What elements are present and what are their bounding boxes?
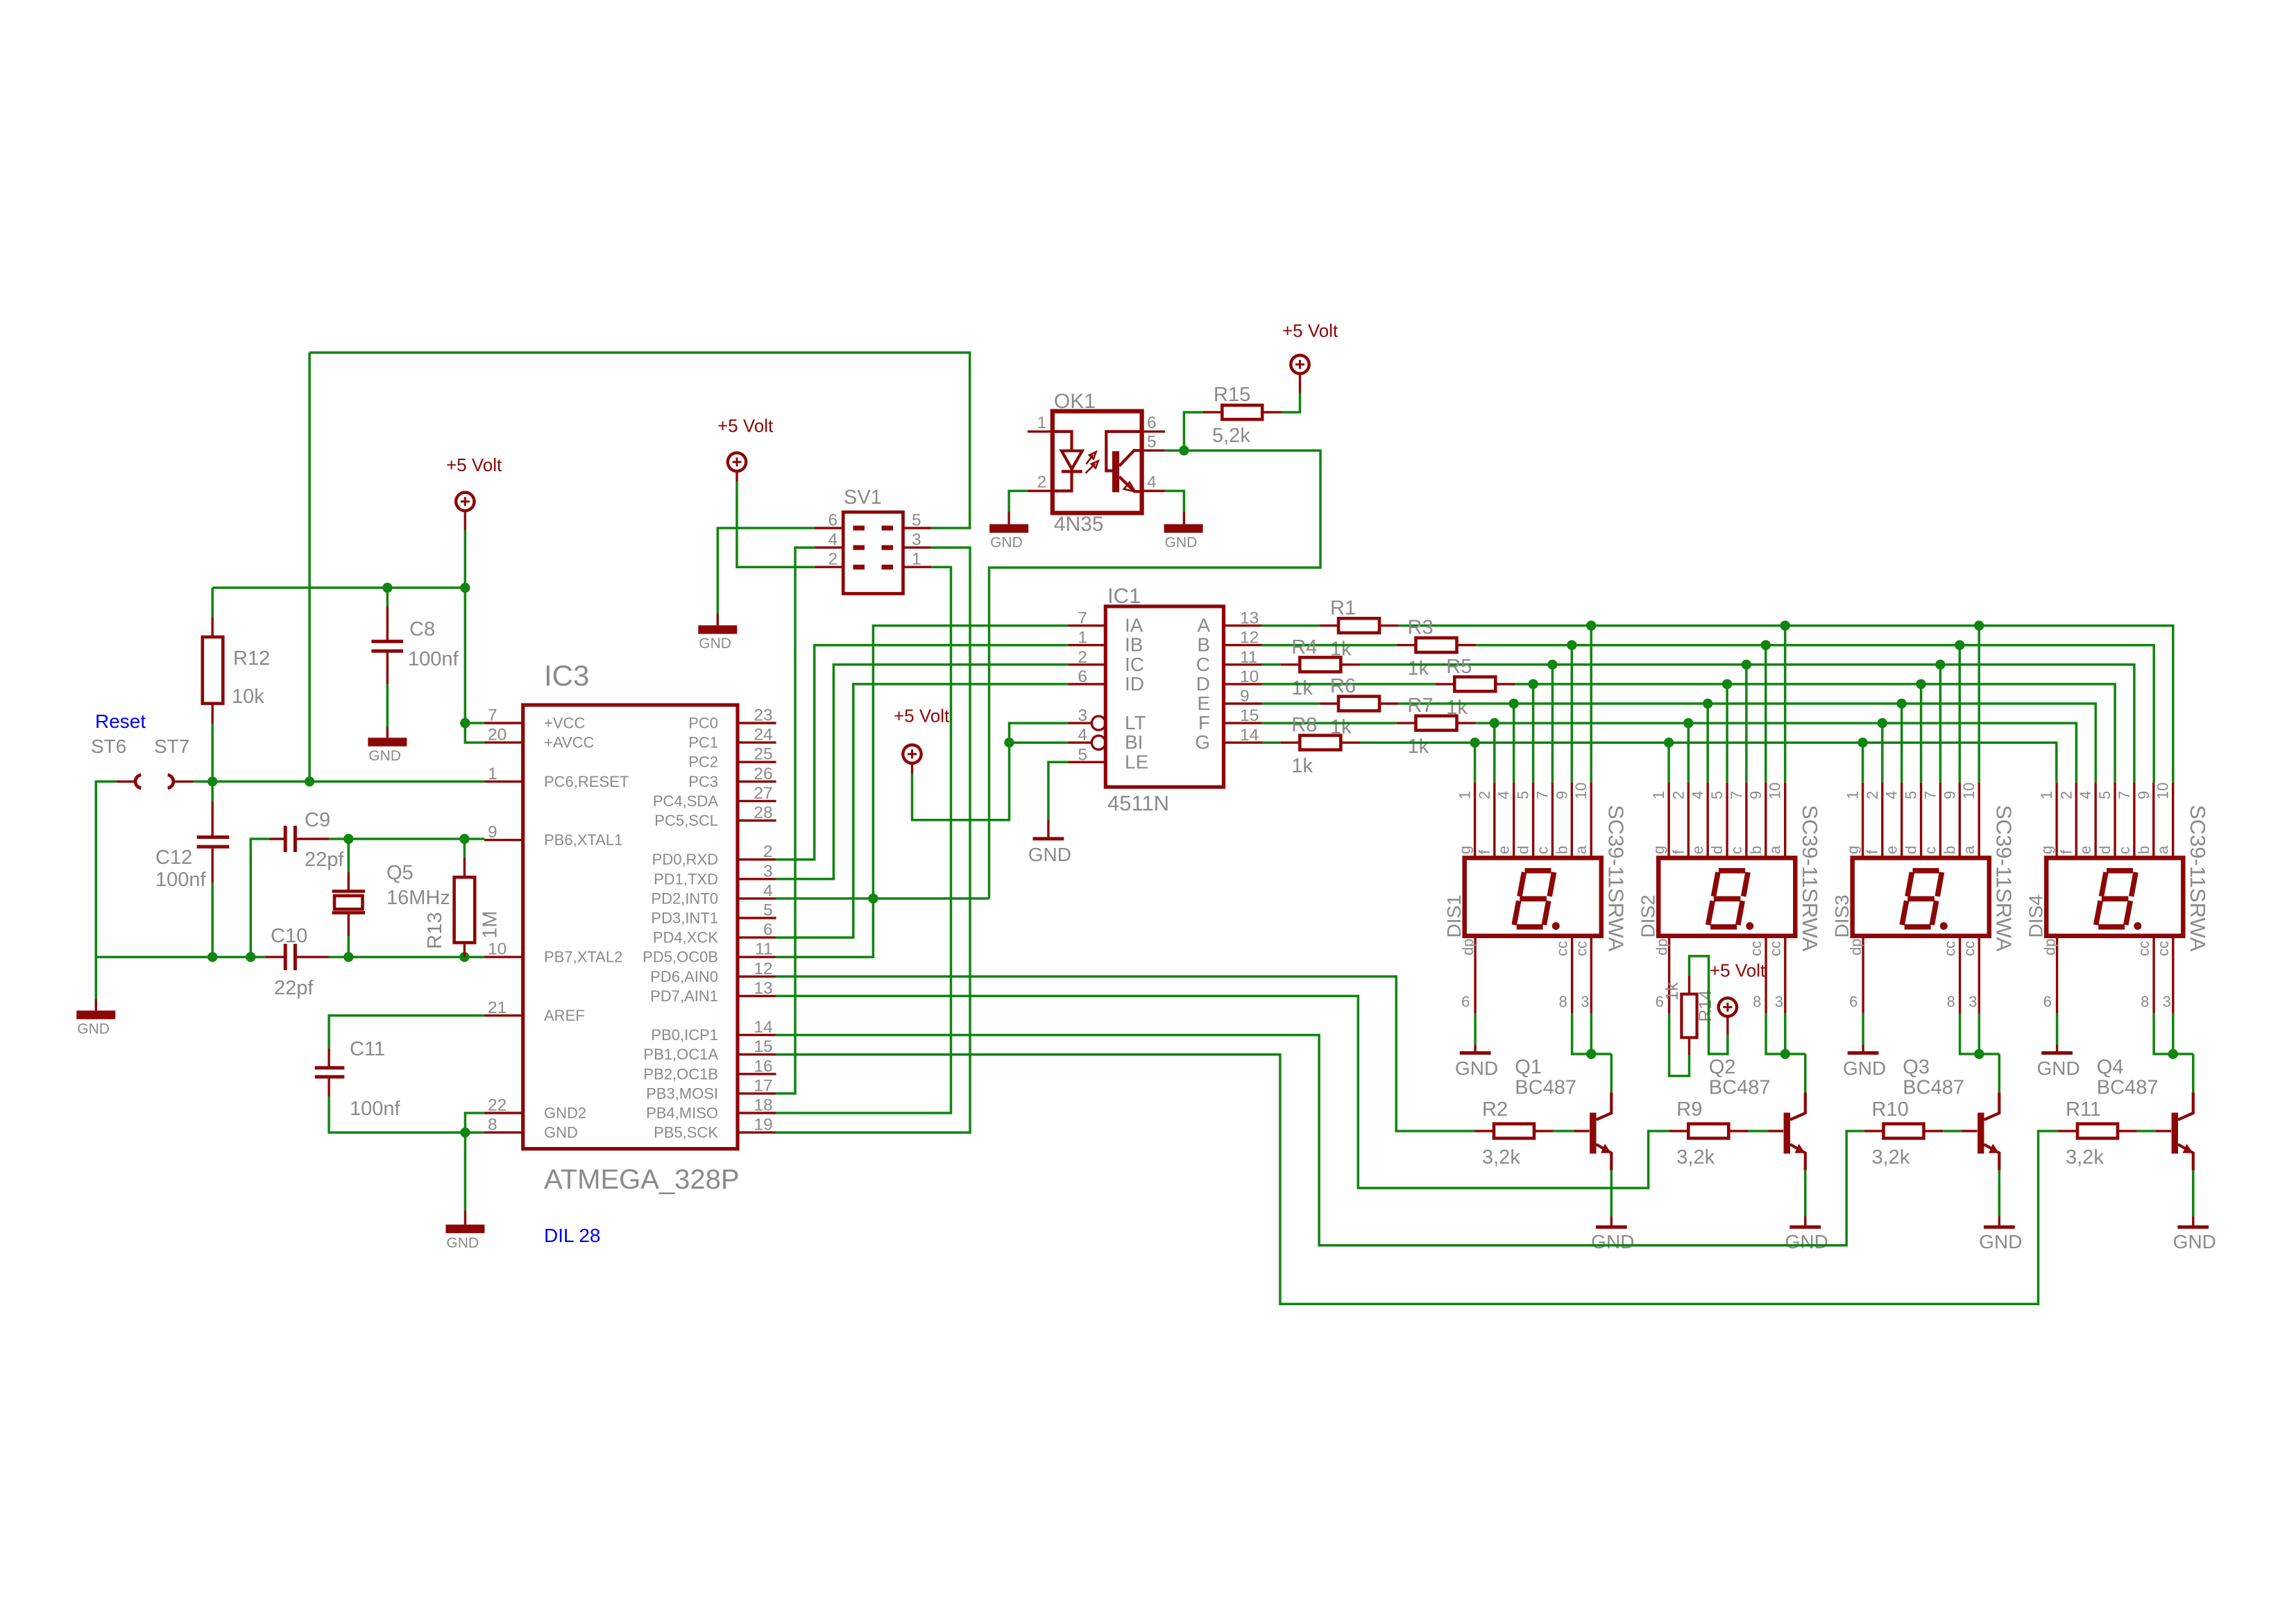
OK1 internal LED — [1053, 432, 1072, 451]
svg-text:cc: cc — [1747, 941, 1764, 956]
svg-text:3: 3 — [1775, 993, 1783, 1010]
svg-text:GND: GND — [699, 636, 731, 652]
junction segment net — [1722, 679, 1732, 689]
IC3 pin 5 PD3,INT1 — [738, 917, 776, 919]
svg-text:19: 19 — [754, 1116, 772, 1135]
svg-text:4N35: 4N35 — [1054, 513, 1104, 536]
svg-text:13: 13 — [754, 979, 772, 998]
junction segment net — [1567, 640, 1576, 650]
ground GND (DIS4 dp) — [2056, 1044, 2058, 1053]
svg-text:R4: R4 — [1291, 636, 1317, 658]
svg-text:PC1: PC1 — [688, 734, 718, 751]
svg-text:GND: GND — [2173, 1231, 2216, 1252]
svg-text:ID: ID — [1125, 673, 1144, 695]
IC3 pin 21 AREF — [484, 1014, 523, 1017]
display DIS3 digit 8 — [1902, 871, 1941, 927]
svg-text:f: f — [2057, 849, 2075, 854]
wire top-run drop to reset row — [308, 352, 311, 781]
svg-text:SC39-11SRWA: SC39-11SRWA — [1604, 805, 1629, 952]
wire segment drop — [1571, 645, 1574, 783]
svg-text:b: b — [2135, 846, 2152, 854]
junction rail/reset-gnd — [95, 956, 96, 958]
wire segment drop — [1862, 742, 1864, 783]
svg-text:d: d — [1708, 846, 1726, 854]
wire crystal top — [348, 839, 350, 872]
IC1 pin 2 IC — [1068, 663, 1105, 665]
svg-text:GND: GND — [1843, 1057, 1886, 1079]
junction rail/+5V/IC3 supply — [460, 583, 470, 593]
svg-text:3: 3 — [1581, 993, 1589, 1010]
junction segment net — [1703, 699, 1712, 708]
svg-text:3,2k: 3,2k — [1676, 1146, 1715, 1169]
wire IC3 pin12 to R2 (digit 1 select) — [776, 976, 1475, 1131]
svg-text:11: 11 — [1240, 648, 1257, 667]
IC3 pin 24 PC1 — [738, 741, 776, 743]
svg-text:5: 5 — [1515, 791, 1532, 799]
svg-text:2: 2 — [2057, 791, 2075, 799]
OK1 pin 1 — [1028, 430, 1053, 432]
junction segment net — [1470, 738, 1479, 747]
svg-text:3,2k: 3,2k — [1872, 1146, 1910, 1169]
svg-text:SV1: SV1 — [844, 486, 882, 509]
wire IC3 pin15 to R11 (digit 4 select) — [776, 1055, 2059, 1305]
IC3 pin 1 PC6,RESET — [484, 781, 523, 783]
junction XTAL1/crystal — [343, 834, 353, 844]
svg-text:4: 4 — [1689, 791, 1706, 799]
svg-text:R1: R1 — [1330, 597, 1356, 620]
capacitor C10 — [284, 944, 287, 970]
svg-text:e: e — [1495, 846, 1513, 854]
wire Q3 collector to cc — [1998, 1054, 2001, 1092]
DIS1 segment pin 2 (f) — [1493, 783, 1495, 858]
junction at IC3 pin 7 — [460, 718, 470, 728]
svg-text:5: 5 — [2096, 791, 2114, 799]
svg-text:9: 9 — [1553, 791, 1570, 799]
DIS4 pin 6 dp — [2056, 936, 2058, 1014]
wire segment net R7 to displays — [1476, 723, 2076, 783]
svg-text:4: 4 — [1495, 791, 1513, 799]
wire IC3 pin2 to IC1 IB — [776, 645, 1069, 860]
svg-text:100nf: 100nf — [350, 1098, 401, 1120]
svg-text:ATMEGA_328P: ATMEGA_328P — [544, 1164, 740, 1195]
svg-text:6: 6 — [1849, 993, 1857, 1010]
IC3 pin 23 PC0 — [738, 722, 776, 724]
wire segment drop — [1978, 626, 1980, 783]
svg-text:16MHz: 16MHz — [386, 887, 450, 909]
wire segment net R1 to displays — [1399, 626, 2173, 783]
display DIS3 SC39-11SRWA box — [1853, 858, 1989, 935]
wire segment drop — [1764, 645, 1767, 783]
svg-text:PC4,SDA: PC4,SDA — [653, 792, 718, 810]
svg-text:IC: IC — [1125, 654, 1144, 675]
IC3 pin 15 PB1,OC1A — [738, 1053, 776, 1055]
wire +5V to LT/BI — [912, 723, 1069, 820]
svg-text:IA: IA — [1125, 615, 1143, 636]
svg-text:9: 9 — [1941, 791, 1958, 799]
svg-text:BC487: BC487 — [2097, 1077, 2159, 1099]
svg-text:SC39-11SRWA: SC39-11SRWA — [2186, 805, 2210, 952]
resistor R15 — [1222, 405, 1262, 419]
svg-text:R2: R2 — [1482, 1098, 1508, 1121]
svg-text:c: c — [2116, 847, 2133, 854]
svg-text:16: 16 — [754, 1057, 772, 1076]
svg-text:SC39-11SRWA: SC39-11SRWA — [1992, 805, 2016, 952]
wire IC1 output to R4 — [1262, 663, 1281, 666]
resistor R3 — [1416, 638, 1457, 652]
svg-text:100nf: 100nf — [408, 648, 459, 670]
wire reset net left to GND — [96, 781, 116, 999]
IC3 pin 27 PC4,SDA — [738, 800, 776, 802]
svg-text:cc: cc — [1767, 941, 1784, 956]
wire R12 top to +5V rail — [211, 588, 214, 618]
IC3 pin 18 PB4,MISO — [738, 1112, 776, 1114]
svg-text:28: 28 — [754, 804, 772, 822]
IC1 pin 12 B — [1224, 644, 1262, 646]
DIS4 pin 3 cc — [2172, 936, 2174, 1014]
svg-text:R11: R11 — [2066, 1098, 2101, 1121]
IC1 pin 5 LE — [1068, 761, 1105, 763]
SV1 pin 1 — [903, 566, 932, 568]
DIS3 segment pin 5 (d) — [1920, 783, 1922, 858]
DIS4 segment pin 4 (e) — [2094, 783, 2096, 858]
wire DIS1 dp to GND — [1474, 1014, 1477, 1045]
junction reset/R12/C12 — [207, 776, 217, 786]
junction segment net — [1857, 738, 1867, 747]
svg-text:C11: C11 — [350, 1038, 385, 1060]
wire Q2 emitter to GND — [1804, 1171, 1807, 1216]
resistor R14 — [1681, 994, 1697, 1038]
svg-text:PD0,RXD: PD0,RXD — [652, 851, 718, 868]
svg-text:a: a — [2154, 845, 2172, 854]
ground GND (Q2) — [1804, 1216, 1806, 1227]
IC3 pin 10 PB7,XTAL2 — [484, 955, 523, 958]
wire C8 bottom to GND — [386, 684, 389, 727]
svg-text:1M: 1M — [479, 911, 502, 939]
svg-text:dp: dp — [1459, 939, 1477, 955]
wire SV1 pin4 to IC3 pin17 MOSI — [776, 547, 815, 1094]
svg-text:100nf: 100nf — [155, 869, 207, 891]
svg-text:7: 7 — [1078, 609, 1087, 628]
svg-text:DIS1: DIS1 — [1443, 894, 1465, 937]
svg-text:F: F — [1198, 712, 1210, 733]
svg-text:LT: LT — [1125, 712, 1146, 733]
junction rail/R13 — [459, 952, 469, 962]
svg-text:BI: BI — [1125, 731, 1143, 753]
svg-text:BC487: BC487 — [1515, 1077, 1576, 1099]
junction cc — [2168, 1049, 2178, 1059]
svg-text:5: 5 — [1147, 433, 1157, 452]
wire SV1 pin3 to IC3 pin19 SCK — [776, 547, 970, 1132]
svg-text:12: 12 — [1240, 629, 1259, 647]
OK1 internal phototransistor — [1106, 432, 1141, 471]
transistor Q1 BC487 — [1590, 1113, 1596, 1154]
wire segment drop — [1959, 645, 1962, 783]
svg-text:8: 8 — [1559, 993, 1567, 1010]
svg-text:cc: cc — [2154, 941, 2172, 956]
display DIS1 SC39-11SRWA box — [1465, 858, 1601, 935]
IC3 pin 19 PB5,SCK — [738, 1131, 776, 1133]
svg-text:6: 6 — [828, 511, 838, 530]
wire segment drop — [1474, 742, 1477, 783]
svg-text:PC3: PC3 — [688, 773, 718, 790]
svg-text:2: 2 — [1669, 791, 1687, 799]
svg-text:24: 24 — [754, 726, 772, 745]
svg-text:GND: GND — [990, 534, 1023, 550]
svg-text:PD2,INT0: PD2,INT0 — [651, 890, 718, 907]
wire IC3 pin14 to R10 (digit 3 select) — [776, 1035, 1864, 1246]
OK1 light arrows — [1085, 452, 1098, 473]
svg-text:e: e — [2077, 846, 2094, 854]
DIS4 segment pin 9 (b) — [2152, 783, 2154, 858]
svg-text:2: 2 — [1476, 791, 1493, 799]
svg-text:IB: IB — [1125, 634, 1143, 656]
IC IC1 4511N box — [1105, 606, 1223, 787]
svg-text:R7: R7 — [1408, 695, 1434, 717]
DIS2 pin 3 cc — [1784, 936, 1786, 1014]
resistor R2 — [1494, 1124, 1534, 1139]
svg-text:Q5: Q5 — [386, 862, 414, 884]
svg-text:10: 10 — [1240, 668, 1259, 686]
svg-text:1: 1 — [1650, 791, 1667, 799]
ground GND (Q3) — [1998, 1216, 2000, 1227]
wire pin22 loop — [465, 1113, 484, 1132]
DIS1 segment pin 7 (c) — [1551, 783, 1554, 858]
connector SV1 — [843, 512, 903, 594]
wire segment net R4 to displays — [1360, 665, 2134, 783]
wire Q3 emitter to GND — [1998, 1171, 2001, 1216]
resistor R10 — [1884, 1124, 1924, 1139]
wire DIS1 cc join — [1572, 1014, 1612, 1054]
svg-text:1: 1 — [488, 765, 498, 783]
svg-text:1: 1 — [1037, 414, 1047, 432]
svg-text:5: 5 — [912, 511, 921, 530]
svg-text:R9: R9 — [1676, 1098, 1702, 1121]
svg-text:1k: 1k — [1291, 755, 1313, 777]
svg-text:8: 8 — [1753, 993, 1761, 1010]
svg-text:OK1: OK1 — [1054, 390, 1096, 413]
svg-text:1: 1 — [2038, 791, 2055, 799]
IC1 pin 9 E — [1224, 702, 1262, 704]
svg-text:R5: R5 — [1446, 656, 1472, 678]
svg-text:c: c — [1921, 847, 1939, 854]
svg-text:DIS2: DIS2 — [1638, 894, 1659, 937]
junction rail/crystal — [343, 952, 353, 962]
svg-text:PC0: PC0 — [688, 715, 718, 732]
svg-text:10: 10 — [1960, 783, 1978, 799]
junction segment net — [1490, 718, 1499, 728]
wire segment drop — [1881, 723, 1884, 783]
IC3 pin 9 PB6,XTAL1 — [484, 839, 523, 841]
junction XTAL1/R13 — [459, 834, 469, 844]
resistor R11 — [2077, 1124, 2118, 1139]
svg-text:+5 Volt: +5 Volt — [717, 416, 774, 436]
wire DIS3 cc join — [1960, 1014, 2000, 1054]
svg-text:GND: GND — [1979, 1231, 2022, 1252]
wire DIS4 dp to GND — [2056, 1014, 2059, 1045]
wire IC1 output to R1 — [1262, 624, 1319, 627]
svg-text:4: 4 — [763, 881, 773, 900]
junction segment net — [1742, 660, 1751, 670]
svg-text:C9: C9 — [305, 809, 330, 831]
ground GND (OK1 pin2) — [1009, 491, 1028, 512]
svg-text:GND: GND — [1455, 1057, 1498, 1079]
svg-text:a: a — [1767, 845, 1784, 854]
wire IC3 pin3 to IC1 IC — [776, 665, 1069, 879]
wire R15 left leg — [1184, 412, 1202, 450]
wire R14 top to +5V — [1690, 956, 1728, 1054]
svg-text:PB1,OC1A: PB1,OC1A — [643, 1046, 718, 1063]
IC1 pin 4 BI — [1068, 741, 1091, 743]
wire segment drop — [1706, 704, 1709, 783]
svg-text:7: 7 — [1921, 791, 1939, 799]
DIS3 segment pin 1 (g) — [1862, 783, 1864, 858]
DIS4 segment pin 1 (g) — [2055, 783, 2057, 858]
svg-text:e: e — [1883, 846, 1900, 854]
DIS1 segment pin 10 (a) — [1590, 783, 1592, 858]
junction segment net — [1780, 620, 1790, 630]
IC1 pin 7 IA — [1068, 624, 1105, 627]
wire R13 top — [464, 839, 466, 858]
svg-text:PB2,OC1B: PB2,OC1B — [643, 1065, 718, 1082]
DIS2 segment pin 2 (f) — [1687, 783, 1690, 858]
IC3 pin 17 PB3,MOSI — [738, 1092, 776, 1094]
svg-text:A: A — [1197, 615, 1210, 636]
IC3 pin 14 PB0,ICP1 — [738, 1034, 776, 1036]
svg-text:D: D — [1196, 673, 1210, 695]
svg-text:21: 21 — [488, 999, 507, 1017]
wire C9 branch down — [250, 839, 269, 957]
svg-text:3: 3 — [912, 531, 921, 550]
IC3 pin 7 +VCC — [484, 722, 523, 724]
resistor R9 — [1688, 1124, 1728, 1139]
wire segment drop — [1551, 665, 1554, 783]
DIS1 segment pin 1 (g) — [1474, 783, 1476, 858]
svg-text:PD7,AIN1: PD7,AIN1 — [650, 987, 718, 1005]
svg-text:dp: dp — [1653, 939, 1671, 955]
junction segment net — [1761, 640, 1771, 650]
svg-text:Q3: Q3 — [1903, 1056, 1930, 1078]
wire Q4 collector to cc — [2192, 1054, 2195, 1092]
IC3 pin 22 GND2 — [484, 1112, 523, 1114]
resistor R6 — [1338, 697, 1379, 711]
svg-text:C: C — [1196, 654, 1210, 675]
IC3 pin 2 PD0,RXD — [738, 858, 776, 860]
wire R15 right to +5V — [1282, 393, 1300, 412]
svg-text:7: 7 — [2116, 791, 2133, 799]
svg-text:26: 26 — [754, 765, 772, 783]
svg-text:c: c — [1728, 847, 1745, 854]
svg-text:+AVCC: +AVCC — [544, 734, 594, 751]
svg-text:3,2k: 3,2k — [2066, 1146, 2104, 1169]
DIS2 segment pin 9 (b) — [1764, 783, 1767, 858]
junction cc — [1974, 1049, 1984, 1059]
wire segment drop — [1900, 704, 1903, 783]
svg-text:G: G — [1195, 731, 1210, 753]
svg-text:d: d — [1903, 846, 1920, 854]
DIS2 segment pin 1 (g) — [1667, 783, 1669, 858]
svg-text:1: 1 — [1078, 629, 1087, 647]
wire SV1 pin1 to IC3 pin18 MISO — [776, 567, 951, 1113]
svg-text:b: b — [1553, 846, 1570, 854]
svg-text:f: f — [1864, 849, 1881, 854]
wire DIS2 dp to R14 — [1669, 1014, 1690, 1076]
IC3 pin 20 +AVCC — [484, 741, 523, 743]
wire segment drop — [1726, 684, 1728, 783]
optocoupler OK1 4N35 box — [1053, 411, 1142, 513]
svg-text:a: a — [1960, 845, 1978, 854]
svg-text:3,2k: 3,2k — [1482, 1146, 1520, 1169]
IC3 pin 28 PC5,SCL — [738, 819, 776, 822]
wire IC3 pin11 to IC1 IA — [776, 626, 1069, 958]
svg-text:g: g — [1844, 846, 1862, 854]
svg-text:1k: 1k — [1291, 677, 1313, 699]
display DIS2 SC39-11SRWA box — [1658, 858, 1795, 935]
wire IC3 pin13 to R9 (digit 2 select) — [776, 996, 1669, 1188]
svg-text:25: 25 — [754, 745, 772, 764]
svg-text:BC487: BC487 — [1903, 1077, 1964, 1099]
wire Q1 emitter to GND — [1610, 1171, 1613, 1216]
svg-text:DIS4: DIS4 — [2025, 894, 2047, 937]
capacitor C11 — [315, 1066, 345, 1069]
IC1 pin 1 IB — [1068, 644, 1105, 646]
wire reset row to IC3 PC6 — [194, 781, 485, 783]
svg-text:1: 1 — [912, 550, 921, 569]
wire OK1 pin5 net to IC3 PD2/INT0 — [989, 450, 1321, 899]
svg-text:+VCC: +VCC — [544, 715, 585, 732]
capacitor C12 — [197, 835, 230, 839]
svg-text:2: 2 — [828, 550, 838, 569]
svg-text:1: 1 — [1456, 791, 1474, 799]
wire DIS3 dp to GND — [1862, 1014, 1864, 1045]
ground GND (DIS3 dp) — [1862, 1044, 1864, 1053]
svg-text:GND: GND — [1591, 1231, 1634, 1252]
svg-text:cc: cc — [1960, 941, 1978, 956]
svg-text:5: 5 — [763, 901, 773, 920]
svg-text:PD4,XCK: PD4,XCK — [653, 929, 718, 946]
DIS2 segment pin 4 (e) — [1706, 783, 1708, 858]
svg-text:9: 9 — [1747, 791, 1764, 799]
OK1 pin 6 — [1142, 430, 1165, 432]
DIS3 pin 6 dp — [1862, 936, 1864, 1014]
DIS4 segment pin 5 (d) — [2114, 783, 2116, 858]
transistor Q2 BC487 — [1784, 1113, 1790, 1154]
wire IC3 pin4 row (INT0 net) — [776, 897, 989, 900]
wire +5V to SV1 pin 2 — [737, 482, 815, 567]
svg-text:10: 10 — [1572, 783, 1590, 799]
IC3 pin 25 PC2 — [738, 760, 776, 763]
resistor R7 — [1416, 716, 1457, 731]
DIS3 segment pin 9 (b) — [1959, 783, 1961, 858]
svg-text:6: 6 — [2043, 993, 2052, 1010]
DIS1 segment pin 4 (e) — [1513, 783, 1515, 858]
svg-text:IC1: IC1 — [1107, 584, 1141, 608]
resistor R13 — [454, 877, 475, 942]
IC3 pin 16 PB2,OC1B — [738, 1073, 776, 1075]
wire crystal bottom — [348, 936, 350, 957]
wire IC3 pin6 to IC1 ID — [776, 684, 1069, 937]
wire C11 bottom to GND row — [329, 1096, 465, 1132]
junction rail/C9-branch — [246, 952, 255, 962]
svg-text:Q4: Q4 — [2097, 1056, 2124, 1078]
IC1 pin 13 A — [1224, 624, 1262, 627]
ground GND (Q4) — [2192, 1216, 2194, 1227]
ground GND (SV1) — [717, 613, 719, 625]
ground GND (bottom left) — [95, 999, 97, 1011]
DIS4 segment pin 2 (f) — [2075, 783, 2077, 858]
wire C10 right to pin10 row — [329, 955, 484, 958]
svg-text:8: 8 — [488, 1116, 498, 1135]
wire segment drop — [1939, 665, 1942, 783]
